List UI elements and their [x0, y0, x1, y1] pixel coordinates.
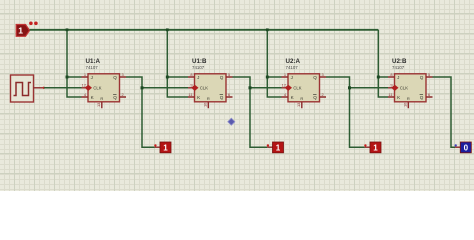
- svg-text:6: 6: [228, 92, 230, 97]
- svg-text:1: 1: [84, 72, 86, 77]
- svg-text:8: 8: [390, 72, 392, 77]
- svg-text:U2:A: U2:A: [286, 58, 301, 65]
- svg-text:11: 11: [188, 92, 192, 97]
- wire: logic-1 feed to J and K of U2:B: [378, 30, 388, 97]
- junction: J branch of U1:B: [166, 76, 169, 79]
- svg-text:13: 13: [96, 103, 101, 107]
- svg-text:U1:B: U1:B: [192, 58, 207, 65]
- svg-text:5: 5: [428, 72, 430, 77]
- svg-text:74107: 74107: [86, 65, 99, 70]
- junction: J branch of U1:A: [66, 76, 69, 79]
- junction: rail tap for U1:B: [166, 28, 169, 31]
- flip-flop U1:B 74107: [188, 58, 233, 109]
- wire: logic-1 rail from LOGICSTATE across top, ends dropping to U2:B: [30, 29, 379, 31]
- svg-text:Q: Q: [313, 75, 317, 80]
- svg-text:Q: Q: [313, 95, 317, 100]
- svg-text:6: 6: [428, 92, 430, 97]
- junction: CLK branch after U2:A: [348, 86, 351, 89]
- wire: Q of U2:B down to probe: [433, 77, 456, 147]
- svg-text:R: R: [407, 96, 410, 101]
- flip-flop U2:B 74107: [388, 58, 433, 109]
- wire: logic-1 feed to J and K of U1:B: [167, 30, 188, 97]
- wire: Q of U1:A to CLK of U1:B and down to probe: [126, 77, 188, 147]
- wire: logic-1 feed to J and K of U1:A: [67, 30, 82, 97]
- wire: clock output to U1:A CLK: [44, 87, 82, 89]
- flip-flop U1:A 74107: [82, 58, 127, 109]
- svg-text:9: 9: [390, 83, 392, 88]
- svg-text:11: 11: [388, 92, 392, 97]
- wire: Q of U2:A to CLK of U2:B and down to probe: [326, 77, 388, 147]
- svg-text:J: J: [91, 75, 93, 80]
- svg-text:J: J: [291, 75, 293, 80]
- svg-text:Q: Q: [220, 75, 224, 80]
- svg-text:74107: 74107: [392, 65, 405, 70]
- flip-flop U2:A 74107: [282, 58, 327, 109]
- svg-text:CLK: CLK: [400, 86, 408, 91]
- svg-text:CLK: CLK: [93, 86, 101, 91]
- svg-text:U1:A: U1:A: [86, 58, 101, 65]
- svg-text:Q: Q: [420, 95, 424, 100]
- svg-text:12: 12: [282, 83, 286, 88]
- svg-text:Q: Q: [420, 75, 424, 80]
- svg-text:CLK: CLK: [293, 86, 301, 91]
- logic probe 3: displays 1: [364, 142, 381, 153]
- logic probe 2: displays 1: [267, 142, 284, 153]
- svg-text:2: 2: [122, 92, 124, 97]
- sheet origin marker (blue diamond): [228, 118, 235, 125]
- svg-text:9: 9: [190, 83, 192, 88]
- svg-text:74107: 74107: [286, 65, 299, 70]
- svg-text:8: 8: [190, 72, 192, 77]
- wire: Q of U1:B to CLK of U2:A and down to probe: [233, 77, 282, 147]
- junction: J branch of U2:B: [377, 76, 380, 79]
- svg-text:5: 5: [228, 72, 230, 77]
- svg-text:1: 1: [163, 143, 168, 152]
- svg-text:R: R: [207, 96, 210, 101]
- svg-text:0: 0: [464, 143, 469, 152]
- logic probe 4: displays 0: [455, 142, 472, 153]
- svg-text:R: R: [100, 96, 103, 101]
- junction: rail tap for U2:A: [266, 28, 269, 31]
- svg-text:1: 1: [18, 26, 23, 36]
- clock generator DCLOCK: [11, 75, 46, 102]
- junction: rail tap for U1:A: [66, 28, 69, 31]
- junction: CLK branch after U1:A: [141, 86, 144, 89]
- svg-text:U2:B: U2:B: [392, 58, 407, 65]
- svg-text:J: J: [197, 75, 199, 80]
- svg-text:3: 3: [322, 72, 324, 77]
- svg-text:J: J: [397, 75, 399, 80]
- junction: J branch of U2:A: [266, 76, 269, 79]
- svg-text:Q: Q: [113, 75, 117, 80]
- wire: logic-1 feed to J and K of U2:A: [267, 30, 281, 97]
- svg-text:1: 1: [284, 72, 286, 77]
- svg-text:12: 12: [82, 83, 86, 88]
- junction: CLK branch after U1:B: [249, 86, 252, 89]
- svg-text:1: 1: [276, 143, 281, 152]
- svg-text:13: 13: [296, 103, 301, 107]
- svg-text:2: 2: [322, 92, 324, 97]
- svg-text:3: 3: [122, 72, 124, 77]
- svg-text:Q: Q: [113, 95, 117, 100]
- svg-text:R: R: [300, 96, 303, 101]
- logic probe 1: displays 1: [154, 142, 171, 153]
- svg-text:74107: 74107: [192, 65, 205, 70]
- svg-text:1: 1: [373, 143, 378, 152]
- svg-text:CLK: CLK: [200, 86, 208, 91]
- svg-text:Q: Q: [220, 95, 224, 100]
- logic state input "1" (LOGICSTATE): [16, 22, 38, 37]
